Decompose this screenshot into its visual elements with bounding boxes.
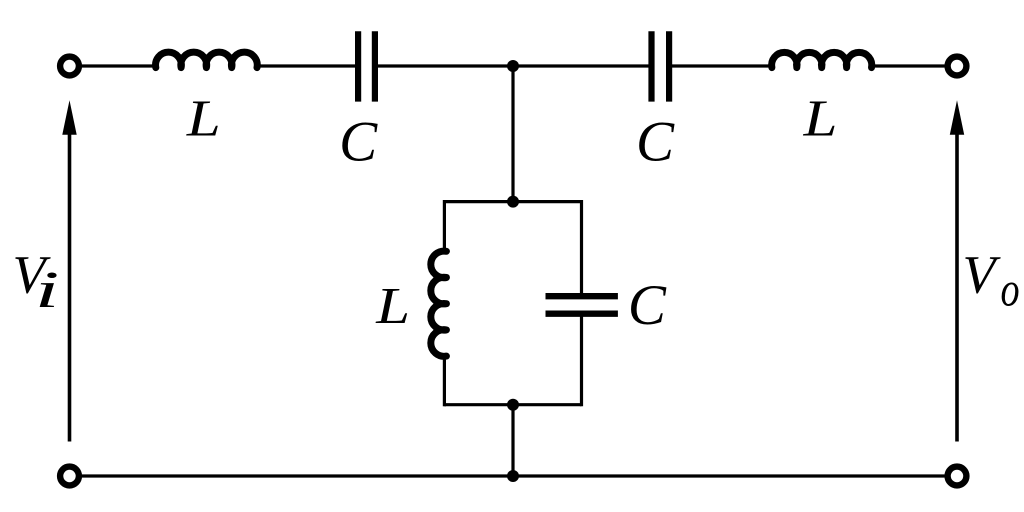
- wire tank right upper vertical: [580, 200, 583, 296]
- node junction dot tank bottom: [507, 399, 519, 411]
- terminal input bottom-left: [60, 467, 79, 486]
- wire center vertical: tank bottom to bottom rail: [511, 405, 514, 476]
- capacitor C2 series right: [652, 31, 670, 101]
- inductor L1 series left: [156, 52, 258, 67]
- wire tank left lower vertical: [443, 355, 446, 406]
- wire tank bottom horizontal: [444, 403, 581, 406]
- svg-text:C: C: [636, 110, 675, 173]
- wire top rail: capacitor C1 to center node: [376, 64, 513, 67]
- wire center vertical: top node to tank top: [511, 66, 514, 202]
- wire top rail: center node to capacitor C2: [513, 64, 651, 67]
- inductor L2 series right: [772, 52, 872, 67]
- inductor L3 shunt: [431, 251, 447, 356]
- wire tank top horizontal: [444, 200, 581, 203]
- arrow Vi head: [62, 100, 76, 134]
- node junction dot tank top: [507, 196, 519, 208]
- svg-text:i: i: [35, 260, 60, 318]
- wire top rail: input terminal to inductor L1: [82, 64, 157, 67]
- svg-text:o: o: [1001, 262, 1020, 317]
- wire top rail: inductor L1 to capacitor C1: [257, 64, 358, 67]
- terminal input top-left: [60, 57, 79, 76]
- svg-text:C: C: [628, 274, 667, 337]
- capacitor C1 series left: [358, 31, 375, 101]
- wire bottom rail: [82, 474, 945, 477]
- wire top rail: capacitor C2 to inductor L2: [670, 64, 773, 67]
- arrow Vo shaft: [955, 131, 959, 442]
- terminal output bottom-right: [948, 467, 967, 486]
- svg-text:C: C: [339, 110, 378, 173]
- node junction dot top center: [507, 60, 519, 72]
- wire tank right lower vertical: [580, 314, 583, 406]
- svg-text:L: L: [375, 278, 410, 335]
- arrow Vo head: [950, 100, 964, 134]
- wire tank left upper vertical: [443, 200, 446, 253]
- terminal output top-right: [948, 57, 967, 76]
- svg-text:L: L: [186, 90, 221, 147]
- wire top rail: inductor L2 to output terminal: [871, 64, 945, 67]
- arrow Vi shaft: [68, 131, 72, 442]
- svg-text:L: L: [803, 90, 838, 147]
- node junction dot bottom center: [507, 470, 519, 482]
- capacitor C3 shunt: [546, 296, 618, 314]
- svg-text:V: V: [963, 245, 1002, 305]
